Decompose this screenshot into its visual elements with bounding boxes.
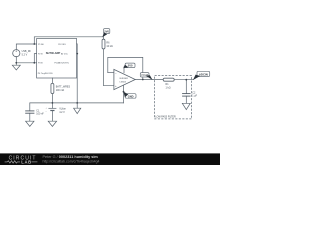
svg-text:+: +: [46, 108, 48, 110]
svg-text:GND: GND: [128, 94, 134, 98]
svg-text:1 kΩ: 1 kΩ: [166, 86, 171, 89]
op-amp U2 buffer: [114, 69, 135, 89]
wire: C1 top lead: [29, 103, 31, 111]
wire: IC bottom pin to BATT_WRES: [51, 78, 53, 83]
wire: source bottom lead: [16, 57, 36, 63]
CircuitLab logo: [5, 156, 38, 165]
wire: VDD rail branch up: [34, 37, 103, 44]
wire: C2 top lead: [185, 80, 187, 94]
svg-text:5V0: 5V0: [104, 30, 109, 34]
ground (C1): [26, 121, 34, 126]
wire: feedback loop: [108, 57, 143, 79]
svg-text:1 µF: 1 µF: [192, 95, 197, 98]
flag ADCIN: [193, 71, 210, 80]
node dot (VDD branch): [33, 43, 35, 45]
wire: IC right pin row2 stub: [76, 53, 79, 55]
wire: ground bus: [30, 102, 124, 104]
wire: source ground stub: [15, 63, 17, 65]
wire: op-amp V- pin stub: [123, 85, 125, 92]
capacitor C1: [25, 111, 34, 113]
flag VOUT (op-amp output): [140, 73, 152, 80]
wire: IC right pins riser to ground bus: [76, 44, 79, 103]
footer bar: [0, 153, 220, 165]
resistor R6: [102, 39, 105, 49]
svg-text:SHT30-ARP: SHT30-ARP: [46, 51, 61, 55]
node dot (feedback/output): [142, 79, 144, 81]
svg-text:P3 B: P3 B: [38, 63, 43, 65]
battery VLiIon: [48, 108, 56, 110]
svg-text:LOW PASS FILTER: LOW PASS FILTER: [155, 115, 176, 118]
resistor R1: [163, 78, 174, 81]
wire: source top lead to P1: [16, 44, 36, 50]
resistor BATT_WRES: [51, 83, 54, 93]
wire: C2 bottom lead: [185, 96, 187, 103]
node dot (C2 branch): [185, 79, 187, 81]
svg-text:ADCIN: ADCIN: [199, 72, 208, 76]
wire: op-amp - input: [108, 72, 114, 74]
svg-text:5.2 V: 5.2 V: [22, 54, 28, 57]
svg-text:LM324: LM324: [120, 81, 127, 83]
svg-text:P6 VSS: P6 VSS: [58, 44, 66, 46]
svg-text:100 mΩ: 100 mΩ: [56, 89, 65, 92]
label V1 value: [22, 50, 32, 57]
IC U1 SHT30-ARP: [37, 39, 77, 79]
wire: bus riser to op-amp V-: [123, 92, 125, 103]
svg-text:AT 25C: AT 25C: [61, 52, 68, 55]
svg-text:−: −: [115, 71, 117, 75]
wire: battery bottom lead: [51, 111, 53, 122]
voltage source V1: [13, 50, 20, 57]
junction dots: [15, 43, 187, 104]
ground (bus mid): [74, 108, 81, 113]
svg-text:P5 ABOUT(RT): P5 ABOUT(RT): [54, 62, 69, 65]
svg-text:10 kΩ: 10 kΩ: [106, 45, 113, 48]
ground (C2): [182, 103, 190, 109]
svg-text:LAB: LAB: [21, 160, 31, 165]
svg-text:BUFFER: BUFFER: [120, 78, 129, 80]
node dot (IC right row2): [76, 53, 78, 55]
svg-text:P4 TinyRH VDD: P4 TinyRH VDD: [38, 73, 53, 75]
flag 5V0 (top): [102, 29, 110, 38]
capacitor C2: [182, 94, 190, 97]
wire: op-amp V+ pin stub: [123, 67, 125, 73]
flag 5V0 (op-amp V+): [123, 63, 135, 68]
ground (battery): [48, 121, 56, 126]
wire: op-amp output to filter: [135, 79, 163, 81]
node dot (source bottom T): [15, 62, 17, 64]
svg-text:P2 B: P2 B: [38, 53, 43, 55]
svg-text:−: −: [46, 111, 48, 113]
svg-text:−: −: [15, 54, 17, 58]
wire: R1 to ADCIN node: [174, 79, 193, 81]
wire: R6 bottom to op-amp + input: [104, 49, 114, 86]
node dot (op-amp V-): [123, 91, 125, 93]
wire: GND branch up to P2: [34, 54, 36, 63]
wire: BATT_WRES bottom lead: [51, 94, 53, 103]
flag GND (op-amp V-): [123, 92, 136, 99]
svg-text:Peter G / 0002311 humidity sim: Peter G / 0002311 humidity sim: [43, 155, 99, 159]
low pass filter dashed box: [155, 76, 192, 119]
ground (under source): [12, 65, 20, 70]
wire: C1 bottom lead: [29, 113, 31, 121]
svg-text:+: +: [15, 50, 17, 54]
node dot (battery/bus): [52, 102, 54, 104]
svg-text:P1 B0: P1 B0: [38, 44, 45, 46]
node dot (GND branch): [33, 62, 35, 64]
svg-text:+: +: [115, 84, 117, 88]
wire: battery top lead: [51, 103, 53, 108]
svg-text:5V0: 5V0: [128, 64, 133, 68]
svg-text:http://circuitlab.com/c/7k4haq: http://circuitlab.com/c/7k4haqedn4g4: [43, 159, 100, 163]
node dot (bus ground): [76, 102, 78, 104]
wire: mid ground stub: [76, 103, 78, 108]
svg-text:4.2 V: 4.2 V: [59, 111, 65, 114]
svg-text:USB_Rh: USB_Rh: [22, 50, 32, 53]
svg-text:100 nF: 100 nF: [36, 113, 44, 116]
